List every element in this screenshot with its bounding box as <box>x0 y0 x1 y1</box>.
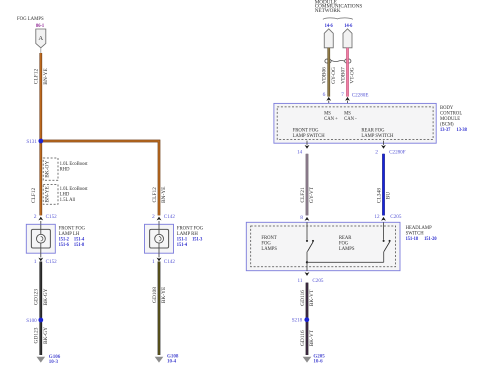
svg-text:BK-VT: BK-VT <box>309 289 315 306</box>
svg-text:LAMPS: LAMPS <box>339 246 355 252</box>
svg-text:BK-YE: BK-YE <box>161 286 167 303</box>
svg-text:GY-VT: GY-VT <box>309 186 315 203</box>
svg-text:C152: C152 <box>46 259 57 265</box>
svg-text:10-3: 10-3 <box>49 359 58 365</box>
svg-text:BN-YE: BN-YE <box>43 68 49 85</box>
svg-text:BK-VT: BK-VT <box>309 329 315 346</box>
svg-text:CAN +: CAN + <box>324 116 338 122</box>
svg-text:151-8: 151-8 <box>74 242 85 248</box>
svg-text:BK-GY: BK-GY <box>43 288 49 305</box>
svg-text:151-20: 151-20 <box>424 236 437 242</box>
svg-text:VDB07: VDB07 <box>340 67 346 84</box>
svg-text:LAMP SWITCH: LAMP SWITCH <box>293 133 325 139</box>
svg-text:86-1: 86-1 <box>36 23 44 29</box>
svg-text:BK-GY: BK-GY <box>43 327 49 344</box>
svg-text:GD123: GD123 <box>34 327 40 343</box>
svg-text:C142: C142 <box>164 259 175 265</box>
svg-text:FOG LAMPS: FOG LAMPS <box>17 16 44 22</box>
svg-text:CLF12: CLF12 <box>34 69 40 85</box>
svg-text:12: 12 <box>374 214 379 220</box>
svg-text:1.5L All: 1.5L All <box>60 197 76 203</box>
svg-text:13-37: 13-37 <box>440 127 451 133</box>
svg-text:BK-OY: BK-OY <box>45 161 51 178</box>
svg-text:151-4: 151-4 <box>177 242 188 248</box>
svg-text:13-38: 13-38 <box>457 127 468 133</box>
svg-text:14-6: 14-6 <box>344 23 352 29</box>
svg-text:1: 1 <box>34 259 37 265</box>
svg-text:151-6: 151-6 <box>59 242 70 248</box>
svg-text:2: 2 <box>34 214 37 220</box>
svg-text:6: 6 <box>323 92 326 98</box>
svg-text:RHD: RHD <box>60 166 70 172</box>
svg-text:151-18: 151-18 <box>406 236 419 242</box>
svg-text:C205: C205 <box>312 278 323 284</box>
svg-text:2: 2 <box>375 150 378 156</box>
svg-text:S100: S100 <box>26 318 37 324</box>
svg-text:VT-OG: VT-OG <box>350 67 356 83</box>
svg-text:NETWORK: NETWORK <box>315 8 341 14</box>
svg-text:GD116: GD116 <box>300 290 306 306</box>
svg-text:10-6: 10-6 <box>313 359 322 365</box>
svg-text:S218: S218 <box>292 318 303 324</box>
svg-text:1: 1 <box>152 259 155 265</box>
svg-text:GY-OG: GY-OG <box>331 67 337 84</box>
svg-text:BN-YE: BN-YE <box>161 186 167 203</box>
svg-text:C2280F: C2280F <box>389 150 406 156</box>
svg-text:S131: S131 <box>26 139 37 145</box>
svg-text:CLF21: CLF21 <box>300 187 306 203</box>
svg-text:C152: C152 <box>46 214 57 220</box>
svg-text:2: 2 <box>152 214 155 220</box>
svg-text:10-4: 10-4 <box>167 359 176 365</box>
svg-text:A: A <box>38 35 43 42</box>
svg-text:CLF12: CLF12 <box>152 187 158 203</box>
svg-text:CAN -: CAN - <box>344 116 357 122</box>
svg-text:LAMPS: LAMPS <box>261 246 277 252</box>
svg-text:GD108: GD108 <box>152 287 158 303</box>
svg-text:11: 11 <box>298 278 303 284</box>
svg-text:C142: C142 <box>164 214 175 220</box>
svg-text:8: 8 <box>300 215 303 221</box>
svg-text:GD116: GD116 <box>300 330 306 346</box>
svg-text:14: 14 <box>297 149 302 155</box>
svg-text:151-3: 151-3 <box>192 237 203 243</box>
svg-text:VDB06: VDB06 <box>322 67 328 84</box>
svg-text:LAMP SWITCH: LAMP SWITCH <box>361 133 393 139</box>
svg-text:BN-YE: BN-YE <box>45 185 51 202</box>
svg-text:BU: BU <box>386 192 392 200</box>
svg-text:14-6: 14-6 <box>325 23 333 29</box>
svg-text:GD123: GD123 <box>34 289 40 305</box>
svg-text:CLF12: CLF12 <box>31 187 37 203</box>
svg-text:C2280E: C2280E <box>352 92 369 98</box>
svg-text:C205: C205 <box>390 214 401 220</box>
svg-text:CL348: CL348 <box>376 188 382 203</box>
svg-text:7: 7 <box>341 92 344 98</box>
